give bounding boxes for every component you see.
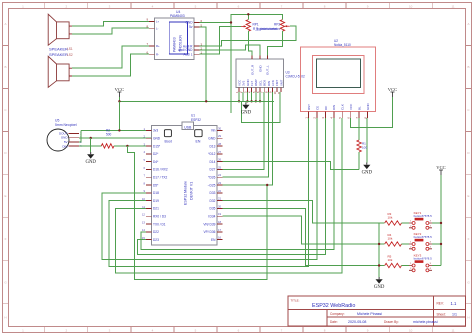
svg-text:D16 / RX2: D16 / RX2	[153, 168, 168, 172]
title block	[288, 296, 466, 326]
wire VCC to ESP32 3v3	[81, 129, 151, 131]
wire U3 BCK to ESP32 D27	[222, 92, 264, 169]
wire R to KEY1	[402, 222, 410, 224]
microcontroller U1 ESP32 DEVKIT	[152, 125, 217, 244]
svg-text:10k: 10k	[388, 236, 393, 240]
svg-text:DIN: DIN	[332, 105, 336, 110]
svg-text:GND: GND	[258, 65, 262, 73]
svg-text:ESP32 Module: ESP32 Module	[184, 181, 188, 205]
svg-text:D19: D19	[153, 199, 159, 203]
wire U3 gnd stem	[245, 101, 247, 102]
svg-text:D17 / TX2: D17 / TX2	[153, 176, 168, 180]
svg-text:PAM8403: PAM8403	[170, 14, 185, 18]
wire U3 VCC to rail	[238, 92, 240, 101]
svg-text:2020-05-08: 2020-05-08	[348, 320, 366, 324]
amplifier module U4 PAM8403	[155, 18, 194, 60]
svg-text:1/1: 1/1	[452, 313, 457, 317]
svg-text:25: 25	[218, 165, 222, 169]
svg-text:R_potenziometro: R_potenziometro	[256, 27, 281, 31]
svg-text:GND: GND	[208, 137, 216, 141]
svg-text:Drawn By:: Drawn By:	[384, 320, 399, 324]
wire D14 to R1 bottom	[222, 162, 359, 170]
svg-text:E: E	[467, 194, 469, 198]
svg-text:*D12: *D12	[208, 152, 215, 156]
svg-text:18: 18	[218, 220, 222, 224]
junction U3 pin rail	[255, 100, 257, 102]
wire U5 GND to ESP32 GND	[79, 137, 152, 139]
svg-text:12: 12	[142, 213, 146, 217]
svg-text:D27: D27	[210, 168, 216, 172]
svg-text:10k: 10k	[388, 258, 393, 262]
wire to ground stem	[90, 138, 92, 152]
wire VCC stem	[118, 97, 120, 101]
U1 left pins	[146, 130, 152, 239]
U2 bottom pin stubs	[309, 112, 368, 119]
junction U3 pin rail	[250, 100, 252, 102]
wire U4 5v to VCC rail	[200, 27, 207, 101]
wire U3 3V3 to rail	[242, 92, 244, 101]
wire KEY1 row left lead	[379, 222, 385, 224]
wire U2 BL to R1	[358, 118, 360, 140]
ground keys	[378, 277, 380, 279]
junction KEY2 VCC	[440, 243, 442, 245]
svg-text:B: B	[4, 65, 6, 69]
svg-text:R+: R+	[156, 44, 160, 48]
junction KEY1 VCC	[440, 222, 442, 224]
svg-text:10: 10	[409, 328, 413, 332]
svg-text:22: 22	[218, 189, 222, 193]
resistor R4 10k	[385, 242, 402, 246]
svg-text:30: 30	[218, 126, 222, 130]
U3 bottom pin stubs	[239, 87, 281, 92]
svg-text:GND: GND	[241, 110, 252, 115]
svg-text:D35: D35	[210, 207, 216, 211]
svg-text:BL: BL	[358, 106, 362, 110]
junction KEY2 GND	[378, 243, 380, 245]
junction U4 GND node	[230, 21, 232, 23]
speaker LS2	[48, 56, 72, 87]
wire U2 GND down	[366, 118, 368, 163]
svg-text:button6*6*8.5: button6*6*8.5	[414, 257, 433, 261]
svg-text:D32: D32	[210, 199, 216, 203]
svg-text:R-: R-	[156, 52, 159, 56]
junction VCC rail left	[118, 100, 120, 102]
svg-text:button6*6*8.5: button6*6*8.5	[414, 235, 433, 239]
wire LS2- to U4 pin4	[72, 54, 149, 76]
wire R1 down to D14 line	[358, 152, 360, 170]
potentiometer RP2	[280, 20, 284, 32]
svg-text:D13: D13	[210, 144, 216, 148]
wire D22 to U2 DIN	[141, 118, 334, 250]
svg-text:10: 10	[409, 4, 413, 8]
wire KEY2 to VCC column	[432, 243, 441, 245]
wire LS1- to U4 pin2	[72, 28, 149, 34]
svg-text:A: A	[4, 22, 6, 26]
svg-text:TX0 / D1: TX0 / D1	[153, 222, 166, 226]
svg-text:VCC: VCC	[388, 87, 397, 92]
U4 left pin stubs	[149, 21, 155, 54]
svg-text:D15*: D15*	[153, 144, 161, 148]
wire loop to D25 net	[127, 146, 267, 279]
wire U3 SCL to rail	[259, 92, 261, 101]
svg-text:GND: GND	[185, 21, 193, 25]
wire RP1 top stub	[247, 14, 249, 19]
wire VCC rail	[119, 100, 274, 102]
potentiometer RP1	[246, 20, 250, 32]
wire R to KEY3	[402, 265, 410, 267]
svg-text:Michele Pinassi: Michele Pinassi	[357, 312, 382, 316]
wire LS2+ to U4 pin3	[72, 46, 149, 68]
svg-text:ESP32 WebRadio: ESP32 WebRadio	[312, 303, 355, 309]
svg-text:B: B	[467, 65, 469, 69]
resistor R2	[101, 144, 114, 148]
pushbutton KEY2	[409, 239, 432, 250]
svg-text:GND: GND	[362, 170, 373, 175]
svg-text:F: F	[468, 237, 470, 241]
svg-text:LS2: LS2	[67, 53, 73, 57]
pushbutton KEY1	[409, 218, 432, 229]
wire U5 DIN to R2	[79, 145, 101, 147]
svg-text:21: 21	[218, 197, 222, 201]
svg-text:26: 26	[218, 158, 222, 162]
wire U3 FLT to rail	[251, 92, 253, 101]
svg-text:XMT: XMT	[279, 80, 283, 87]
svg-text:SPEAKER: SPEAKER	[49, 47, 68, 52]
pushbutton KEY3	[409, 261, 432, 272]
svg-text:GND: GND	[153, 137, 161, 141]
DAC module U3 CJMCU-5102	[236, 59, 284, 87]
svg-text:VP/ D36: VP/ D36	[204, 230, 216, 234]
svg-text:3v3: 3v3	[153, 129, 158, 133]
wire D18 to U2 CE	[102, 118, 317, 259]
wire RP2 to U3 OUT_L	[267, 31, 282, 55]
wire D35 to KEY3 row	[222, 208, 379, 265]
junction 5v riser	[205, 100, 207, 102]
svg-text:RST: RST	[307, 104, 311, 110]
svg-text:D33: D33	[210, 191, 216, 195]
junction U3 pin rail	[238, 100, 240, 102]
display U2 Nokia_5110	[301, 47, 376, 112]
wire D19 to U2 RST	[109, 118, 309, 266]
svg-text:VCC: VCC	[436, 165, 445, 170]
svg-text:20: 20	[218, 204, 222, 208]
svg-text:L-: L-	[156, 26, 159, 30]
svg-text:Nokia_5110: Nokia_5110	[334, 43, 351, 47]
wire node down	[230, 23, 232, 114]
svg-text:*D26: *D26	[208, 176, 215, 180]
svg-text:GND: GND	[366, 103, 370, 111]
svg-text:VN/ D39: VN/ D39	[203, 222, 215, 226]
svg-text:E: E	[4, 194, 6, 198]
wire KEY3 to VCC column	[432, 265, 441, 267]
wire U3 LCK to ESP32 D25	[222, 92, 272, 185]
U1 right pins	[217, 130, 222, 239]
svg-text:VCC: VCC	[115, 87, 124, 92]
wire U3 GND to rail	[246, 92, 248, 101]
svg-text:michele.pinassi: michele.pinassi	[413, 320, 438, 324]
svg-text:TITLE:: TITLE:	[291, 299, 300, 303]
wire D34 to KEY2 row	[222, 216, 379, 244]
wire D21 to U2 CLK	[116, 118, 343, 273]
svg-text:D18: D18	[153, 191, 159, 195]
Boot button on U1	[164, 130, 171, 137]
svg-text:CLK: CLK	[341, 104, 345, 110]
svg-text:Audi L: Audi L	[183, 52, 192, 56]
wire KEY1 to VCC column	[432, 222, 441, 224]
svg-text:~D25: ~D25	[208, 183, 216, 187]
svg-text:LS1: LS1	[67, 47, 73, 51]
svg-text:11: 11	[451, 328, 454, 332]
svg-text:28: 28	[218, 142, 222, 146]
wire D23 to U2 DC	[138, 118, 326, 255]
svg-text:13: 13	[142, 220, 146, 224]
svg-text:D4*: D4*	[153, 160, 159, 164]
svg-text:VCC: VCC	[349, 103, 353, 110]
svg-text:A: A	[467, 22, 469, 26]
svg-text:USB: USB	[184, 125, 192, 129]
wire U4 AudiGND to U3 GND	[200, 45, 261, 56]
svg-text:PAM8403: PAM8403	[173, 37, 177, 52]
junction VCC 3v3	[118, 129, 120, 131]
resistor R3 10k	[385, 221, 402, 225]
wire 5V riser	[79, 130, 81, 142]
svg-text:button6*6*8.5: button6*6*8.5	[414, 214, 433, 218]
wire U4 AudiR to RP2 wiper	[200, 26, 297, 46]
svg-text:CE: CE	[315, 106, 319, 110]
junction D25 loop	[266, 184, 268, 186]
ground below U3	[245, 103, 247, 105]
svg-text:D22: D22	[153, 230, 159, 234]
svg-text:D14: D14	[210, 160, 216, 164]
svg-text:EN: EN	[211, 238, 216, 242]
wire D32 to KEY1 row	[222, 201, 379, 223]
wire VCC column	[440, 175, 442, 266]
svg-text:100: 100	[362, 146, 367, 150]
svg-text:16: 16	[218, 236, 222, 240]
wire U2 VCC to flag	[351, 97, 393, 128]
wire U3 DMP to rail	[255, 92, 257, 101]
svg-text:RX0 / D3: RX0 / D3	[153, 215, 166, 219]
svg-text:SPEAKER: SPEAKER	[49, 52, 68, 57]
svg-text:H: H	[4, 315, 6, 319]
svg-text:29: 29	[218, 134, 222, 138]
svg-text:OUT_R: OUT_R	[250, 64, 254, 75]
svg-text:D2*: D2*	[153, 152, 159, 156]
svg-text:REV:: REV:	[437, 302, 444, 306]
wire LS1+ to U4 pin1	[72, 21, 149, 26]
svg-text:DEVKIT V1: DEVKIT V1	[190, 182, 194, 200]
svg-text:I D34: I D34	[208, 215, 216, 219]
svg-text:Vin: Vin	[211, 129, 216, 133]
wire VCC to 3v3 line	[118, 101, 120, 130]
EN button on U1	[195, 130, 202, 137]
svg-text:Sheet:: Sheet:	[437, 313, 446, 317]
ground below U5	[90, 152, 92, 154]
svg-text:17: 17	[218, 228, 222, 232]
svg-text:19: 19	[218, 212, 222, 216]
svg-text:F: F	[5, 237, 7, 241]
wire U4 GND to node	[200, 22, 232, 24]
svg-text:ESP32: ESP32	[191, 118, 201, 122]
junction U3 pin rail	[246, 100, 248, 102]
svg-text:OUT_L: OUT_L	[266, 65, 270, 75]
svg-text:500: 500	[106, 133, 112, 137]
speaker LS1	[48, 14, 72, 45]
wire R to KEY2	[402, 243, 410, 245]
junction RP1 top	[247, 13, 249, 15]
svg-text:1.1: 1.1	[451, 301, 457, 306]
svg-text:10k: 10k	[388, 215, 393, 219]
svg-text:CJMCU-5102: CJMCU-5102	[286, 75, 306, 79]
svg-text:24: 24	[218, 173, 222, 177]
svg-text:GND: GND	[374, 285, 385, 290]
svg-text:D23: D23	[153, 238, 159, 242]
wire XMT under-loop to rail	[241, 92, 280, 122]
junction U3 pin rail	[259, 100, 261, 102]
wire keys GND column	[378, 223, 380, 277]
svg-text:DIN: DIN	[62, 144, 67, 148]
ground below U2	[366, 163, 368, 165]
svg-text:D5*: D5*	[153, 183, 159, 187]
svg-text:11: 11	[451, 4, 454, 8]
wire RP tops	[231, 14, 282, 22]
svg-text:GND: GND	[61, 136, 69, 140]
junction U5 GND	[90, 137, 92, 139]
USB connector on U1	[182, 122, 194, 129]
wire R2 to ESP32 D15	[114, 145, 152, 147]
wire KEY3 row left lead	[379, 265, 385, 267]
svg-text:Boot: Boot	[165, 140, 172, 144]
svg-text:L+: L+	[156, 20, 160, 24]
svg-text:Company:: Company:	[330, 312, 345, 316]
LED U5 5mm Neopixel	[47, 129, 69, 151]
wire RP1 to U3 OUT_R	[248, 31, 252, 55]
svg-text:Date:: Date:	[330, 320, 338, 324]
svg-text:5mm Neopixel: 5mm Neopixel	[55, 123, 77, 127]
wire KEY2 row left lead	[379, 243, 385, 245]
svg-text:H: H	[467, 315, 469, 319]
wire U3 DIN to ESP32 D26	[222, 92, 268, 177]
svg-text:27: 27	[218, 150, 222, 154]
U4 right pin stubs	[194, 23, 200, 55]
wire U4 AudiL to RP1 wiper	[200, 26, 241, 54]
svg-text:23: 23	[218, 181, 222, 185]
U3 top pin stubs	[252, 56, 267, 59]
junction KEY3 GND	[378, 264, 380, 266]
svg-text:D21: D21	[153, 207, 159, 211]
svg-text:5v: 5v	[189, 25, 193, 29]
svg-text:EN: EN	[196, 140, 201, 144]
U5 pin stubs	[69, 134, 79, 146]
junction R2 net	[126, 145, 128, 147]
svg-text:GND: GND	[85, 160, 96, 165]
resistor R5 10k	[385, 263, 402, 267]
